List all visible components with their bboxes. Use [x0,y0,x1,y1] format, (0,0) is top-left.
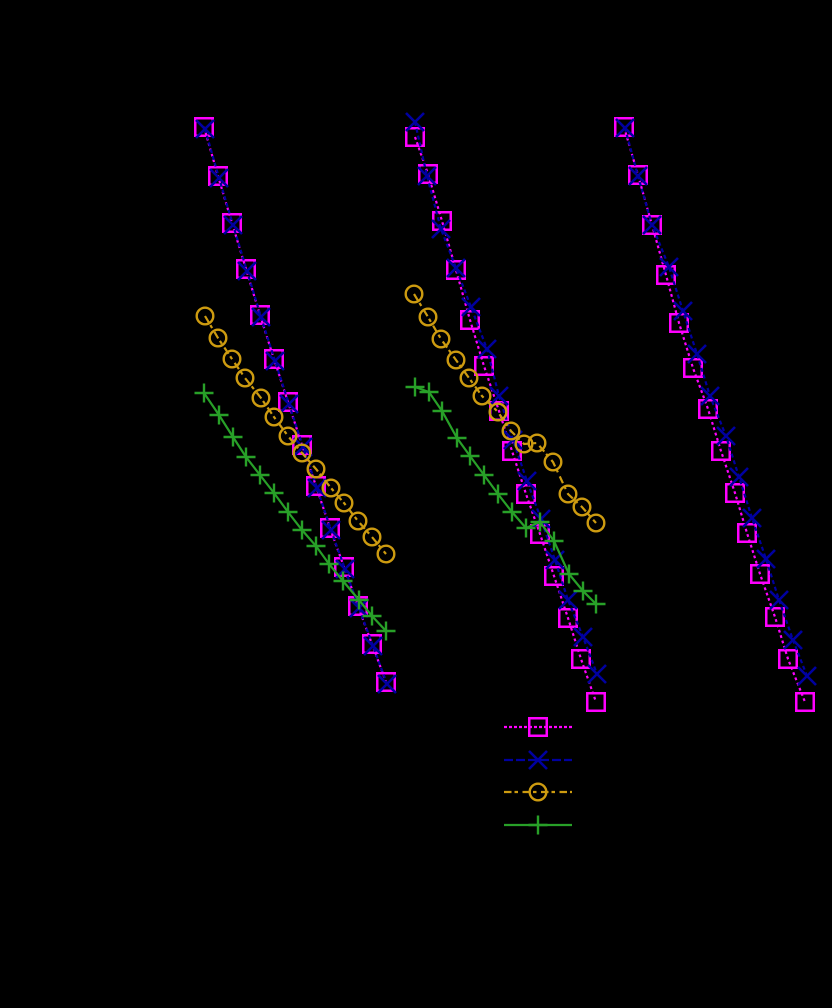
panel 1 : series D (green plus, solid line) [195,384,396,641]
legend entry 4 : green plus sample [504,816,572,835]
panel 2 : series A (magenta squares, dotted line) [406,128,605,711]
panel 3 : series A (magenta squares, dotted line) [615,118,814,711]
legend entry 2 : navy X sample [504,751,572,769]
panel 1 : series C (orange circles, dash-dot line) [197,308,395,563]
legend entry 3 : orange circles sample [504,784,572,801]
panel 1 : series B (navy X, dashed line) [196,120,396,693]
panel 2 : series D (green plus, solid line) [406,378,606,614]
panel 3 : series B (navy X, dashed line) [616,119,816,685]
panel 2 : series B (navy X, dashed line) [406,113,606,683]
panel 2 : series C (orange circles, dash-dot line) [406,286,605,532]
legend entry 1 : magenta squares sample [504,718,572,736]
panel 1 : series A (magenta squares, dotted line) [195,118,395,691]
